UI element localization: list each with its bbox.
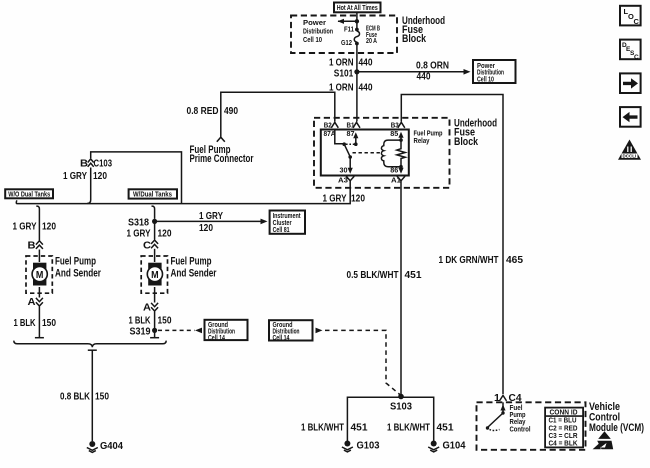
wire 1 BLK 150 (right pump)	[154, 312, 156, 329]
VCM CONN ID table	[545, 408, 583, 448]
bottom merge brace	[14, 341, 166, 348]
svg-text:1 DK GRN/WHT: 1 DK GRN/WHT	[439, 255, 499, 266]
ground distribution cell 14 box (right)	[269, 320, 313, 340]
connector C103	[88, 159, 94, 167]
wire 0.8 RED 490 to prime connector	[221, 92, 335, 137]
svg-text:And Sender: And Sender	[55, 268, 102, 280]
wire 1 GRY 120 to instrument cluster	[155, 220, 262, 222]
underhood fuse block label (relay)	[454, 117, 497, 148]
pin B2 connector	[331, 122, 338, 128]
pin A1 connector	[397, 176, 405, 181]
wire into left pump	[38, 250, 40, 263]
node S103	[398, 394, 404, 400]
svg-text:F11: F11	[344, 27, 354, 34]
vehicle control module (VCM) label	[589, 401, 644, 434]
svg-text:C103: C103	[94, 158, 113, 169]
node S101	[354, 69, 359, 74]
underhood fuse block (relay) dashed outline	[314, 118, 450, 188]
Hot At All Times tag	[334, 3, 381, 13]
pin label 87	[347, 129, 355, 138]
svg-text:Relay: Relay	[414, 138, 430, 145]
svg-text:G404: G404	[100, 441, 123, 452]
fuel pump and sender M1 (left)	[26, 256, 52, 293]
wires S103 to grounds	[347, 397, 433, 441]
relay pin 85 arrow up	[400, 138, 402, 141]
wire loop up to C103	[91, 152, 182, 204]
svg-text:Power: Power	[303, 20, 326, 27]
wire 0.5 BLK/WHT 451 from relay A1 to S103	[400, 181, 402, 396]
svg-text:Cell 81: Cell 81	[273, 227, 290, 234]
underhood fuse block label (top)	[402, 15, 445, 45]
wire 1 GRY 120 from A3 down to fuel pump bus	[16, 181, 350, 204]
connector A (right pump)	[154, 287, 156, 303]
svg-text:Relay: Relay	[510, 419, 526, 426]
svg-text:87: 87	[347, 129, 355, 138]
vehicle control module dashed outline	[477, 402, 586, 450]
svg-text:Hot At All Times: Hot At All Times	[337, 5, 378, 12]
svg-text:451: 451	[437, 423, 454, 434]
wire 1 BLK 150 (left pump)	[38, 307, 40, 338]
svg-text:S318: S318	[128, 218, 149, 229]
node S319	[152, 328, 157, 333]
svg-text:Distribution: Distribution	[303, 29, 333, 36]
wire below S319 to bus	[154, 330, 156, 337]
svg-text:440: 440	[359, 58, 373, 69]
wire 0.8 ORN 440 to power distribution	[357, 71, 464, 73]
relay coil drive dashed link	[353, 152, 382, 154]
W/O Dual Tanks option box	[5, 189, 53, 198]
fuel pump and sender M2 (right)	[141, 256, 167, 293]
pin label 86	[390, 165, 398, 174]
svg-text:490: 490	[224, 106, 238, 117]
svg-text:150: 150	[158, 315, 172, 326]
svg-text:Prime Connector: Prime Connector	[190, 153, 255, 165]
svg-text:Fuel: Fuel	[510, 405, 523, 412]
relay dotted link 87A to 87	[346, 143, 356, 145]
svg-text:And Sender: And Sender	[171, 268, 218, 280]
dashed wire ground distribution to S103	[316, 328, 323, 334]
svg-text:C4 = BLK: C4 = BLK	[549, 441, 578, 448]
svg-text:C2 = RED: C2 = RED	[549, 425, 578, 432]
connector A (left pump)	[38, 287, 40, 298]
fuel pump prime connector half	[217, 137, 225, 142]
svg-text:1 GRY: 1 GRY	[63, 171, 87, 182]
wire into right pump	[154, 249, 156, 262]
ESD sensitive symbol	[598, 431, 611, 439]
pin label 87A	[324, 129, 336, 138]
svg-text:30: 30	[340, 165, 348, 174]
arrow to power distribution cell 10 (left)	[338, 20, 357, 22]
svg-text:1 GRY: 1 GRY	[199, 211, 223, 222]
svg-text:CONN ID: CONN ID	[550, 409, 578, 416]
svg-text:120: 120	[199, 223, 213, 234]
svg-text:120: 120	[93, 171, 107, 182]
svg-text:Fuel Pump: Fuel Pump	[171, 256, 212, 268]
sidebar icon DESC	[620, 40, 641, 60]
svg-text:G104: G104	[443, 441, 466, 452]
right branch wire (W/dual tanks)	[152, 206, 155, 219]
sidebar logo triangle	[618, 140, 641, 160]
svg-text:M: M	[151, 270, 159, 281]
pin B3 connector	[398, 122, 405, 128]
svg-text:Pump: Pump	[510, 412, 526, 419]
relay pin 87 arrow up	[355, 138, 357, 145]
connector C (right pump)	[151, 240, 158, 248]
svg-text:M: M	[36, 270, 44, 281]
svg-text:A3: A3	[338, 176, 348, 185]
svg-text:Cell 14: Cell 14	[208, 335, 225, 342]
node S318	[152, 219, 157, 224]
relay coil L (loop with bumps)	[381, 140, 401, 167]
svg-text:S103: S103	[390, 402, 412, 413]
underhood fuse block (top) dashed outline	[291, 16, 397, 54]
svg-text:1 BLK: 1 BLK	[129, 315, 152, 326]
dashed wire S319 to ground distribution	[158, 329, 195, 331]
svg-text:DCCLI: DCCLI	[623, 154, 637, 159]
svg-text:440: 440	[359, 83, 373, 94]
svg-text:S101: S101	[334, 68, 354, 79]
relay coil resistor zigzag	[397, 140, 405, 167]
svg-text:G103: G103	[357, 441, 380, 452]
svg-text:1 BLK/WHT: 1 BLK/WHT	[387, 423, 430, 434]
relay pin 86 arrow down	[400, 167, 402, 169]
svg-text:W/O Dual Tanks: W/O Dual Tanks	[8, 191, 50, 198]
svg-text:1 GRY: 1 GRY	[13, 222, 37, 233]
fuse F11 ECM B 20 A	[356, 21, 358, 29]
svg-text:0.8 RED: 0.8 RED	[187, 106, 219, 117]
svg-text:Module (VCM): Module (VCM)	[589, 422, 644, 434]
pin B1 connector	[353, 122, 360, 128]
relay switch 87A branch wire	[335, 129, 344, 144]
svg-text:20 A: 20 A	[366, 38, 377, 45]
power distribution cell 10 box	[473, 60, 516, 83]
pin A3 connector	[346, 176, 354, 181]
svg-text:150: 150	[42, 318, 56, 329]
relay switch blade	[344, 144, 350, 157]
svg-text:B: B	[80, 158, 88, 169]
sidebar icon next arrow	[620, 73, 641, 93]
svg-text:1 ORN: 1 ORN	[329, 58, 354, 69]
sidebar icon LOC	[620, 6, 641, 26]
VCM fuel pump relay control driver	[502, 402, 504, 412]
svg-text:Cell 10: Cell 10	[303, 37, 322, 44]
instrument cluster cell 81 box	[270, 211, 305, 234]
svg-text:Cell 10: Cell 10	[477, 76, 494, 83]
ground G104	[431, 441, 437, 447]
svg-text:451: 451	[405, 270, 422, 281]
wire 1 DK GRN/WHT 465 from relay B3 to VCM C4	[401, 95, 503, 395]
ground G404	[89, 441, 95, 447]
connector C4 pin 1	[500, 395, 507, 401]
relay pin 30 arrow down	[349, 157, 351, 169]
svg-text:1 GRY: 1 GRY	[127, 229, 151, 240]
svg-text:451: 451	[351, 423, 368, 434]
svg-text:W/Dual Tanks: W/Dual Tanks	[133, 192, 172, 199]
svg-text:A1: A1	[391, 176, 402, 185]
wire 1 GRY 120 below S318	[154, 221, 156, 239]
svg-text:C1 = BLU: C1 = BLU	[549, 418, 577, 425]
W/Dual Tanks option box	[129, 189, 177, 198]
svg-text:440: 440	[417, 72, 431, 83]
svg-text:150: 150	[95, 392, 109, 403]
svg-text:Fuel Pump: Fuel Pump	[55, 256, 96, 268]
svg-text:C: C	[143, 240, 151, 251]
svg-text:465: 465	[506, 255, 523, 266]
wire from tag into fuse block	[356, 12, 358, 21]
svg-text:B: B	[28, 240, 36, 251]
svg-text:C3 = CLR: C3 = CLR	[549, 433, 578, 440]
svg-text:S319: S319	[130, 326, 151, 337]
wire 1 GRY 120 from C103 to bus	[87, 168, 90, 204]
svg-text:1 GRY: 1 GRY	[323, 194, 347, 205]
sidebar icon prev arrow	[620, 107, 641, 127]
left branch wire 1 GRY 120 (W/O dual tanks)	[36, 206, 39, 240]
svg-text:Cell 14: Cell 14	[273, 335, 290, 342]
wire 0.8 BLK 150 to G404	[91, 350, 93, 441]
svg-text:Fuel Pump: Fuel Pump	[414, 131, 443, 138]
svg-text:120: 120	[351, 194, 365, 205]
connector B (left pump)	[36, 241, 43, 249]
svg-text:A: A	[28, 297, 36, 308]
svg-text:Control: Control	[510, 426, 531, 433]
svg-text:Block: Block	[402, 33, 427, 45]
svg-text:1 BLK/WHT: 1 BLK/WHT	[301, 423, 344, 434]
fuel pump relay label	[414, 131, 443, 145]
wire 1 ORN 440 from S101 to relay pin B1	[356, 72, 358, 122]
svg-text:Block: Block	[454, 136, 479, 148]
svg-text:120: 120	[158, 229, 172, 240]
ground distribution cell 14 box (left)	[205, 320, 248, 340]
svg-text:0.8 ORN: 0.8 ORN	[416, 60, 449, 71]
wire 1 ORN 440 from fuse to S101	[356, 45, 358, 72]
power distribution cell 10 reference text (inside fuse block)	[303, 20, 333, 44]
svg-text:C: C	[634, 54, 639, 61]
svg-text:0.5 BLK/WHT: 0.5 BLK/WHT	[347, 270, 399, 281]
svg-text:1 BLK: 1 BLK	[14, 318, 37, 329]
svg-text:A: A	[143, 302, 151, 313]
svg-text:0.8 BLK: 0.8 BLK	[60, 392, 91, 403]
svg-text:85: 85	[390, 129, 399, 138]
pin label 30	[340, 165, 348, 174]
ground G103	[344, 441, 350, 447]
svg-text:C: C	[634, 17, 640, 26]
svg-text:G12: G12	[341, 40, 352, 47]
svg-text:120: 120	[42, 222, 56, 233]
pin label 85	[390, 129, 399, 138]
fuel pump relay U1 box	[321, 130, 409, 176]
